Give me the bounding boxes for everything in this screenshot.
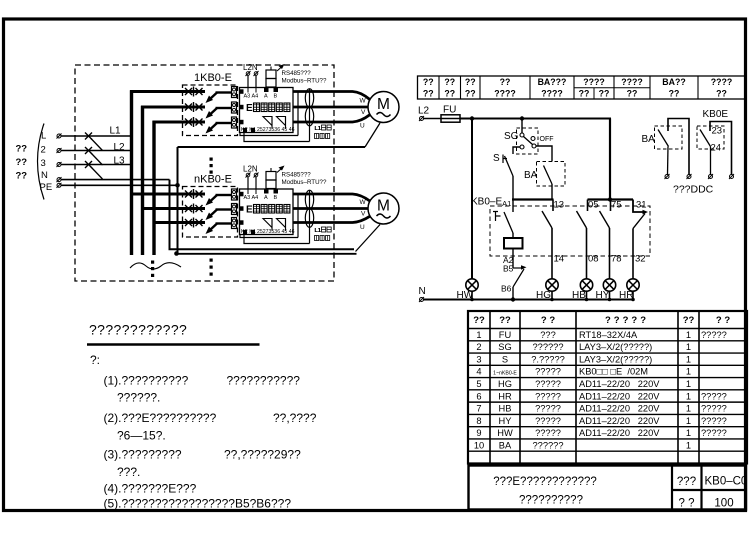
junction lamp/N x=609.5 xyxy=(608,298,612,302)
current transformer sampling wire 1KB0-E xyxy=(309,89,311,142)
svg-text:?????: ????? xyxy=(535,367,561,377)
RS485 connector 1KB0-E xyxy=(266,70,276,79)
svg-text:???E????????????: ???E???????????? xyxy=(493,476,597,488)
junction PE bottom xyxy=(174,251,179,256)
svg-text:AD11–22/20 220V: AD11–22/20 220V xyxy=(579,379,660,389)
terminal stub A4 1KB0-E xyxy=(255,88,257,93)
motor PE diagonal 1KB0-E xyxy=(365,123,380,147)
control feed wire xyxy=(424,118,442,120)
title block frame xyxy=(469,466,747,510)
svg-text:08: 08 xyxy=(588,254,599,265)
svg-text:1: 1 xyxy=(686,354,691,364)
svg-text:W: W xyxy=(360,199,367,206)
svg-text:HW: HW xyxy=(497,428,513,438)
svg-text:? ?: ? ? xyxy=(679,498,695,510)
sampling wire 2 1KB0-E xyxy=(297,92,299,136)
svg-text:(5).?????????????????B5?B6???: (5).?????????????????B5?B6??? xyxy=(104,497,292,511)
HW lamp rail drop xyxy=(471,119,473,280)
svg-text:KB0E: KB0E xyxy=(703,109,729,120)
terminal pads A,B nKB0-E xyxy=(264,190,269,194)
wire blade to terminal block phase 3 nKB0-E xyxy=(216,222,232,224)
svg-text:L1: L1 xyxy=(315,228,321,234)
controller input pad phase 2 nKB0-E xyxy=(239,206,244,211)
svg-text:U: U xyxy=(360,123,365,130)
svg-text:2: 2 xyxy=(41,145,46,156)
BOM row line y=426.7 xyxy=(468,426,747,428)
bottom pads 1KB0-E xyxy=(243,128,247,132)
svg-text:? ?: ? ? xyxy=(541,315,555,326)
BOM table frame xyxy=(468,311,747,463)
contactor/breaker dashed enclosure nKB0-E xyxy=(183,187,238,238)
terminal block phase 1 1KB0-E xyxy=(232,87,237,98)
svg-text:B6: B6 xyxy=(501,284,512,294)
terminal block phase 3 nKB0-E xyxy=(232,218,237,229)
KB0E bridge xyxy=(710,122,732,175)
svg-text:32: 32 xyxy=(635,254,646,265)
sampling wire 2 nKB0-E xyxy=(297,194,299,238)
wire-tap terminals L2 N nKB0-E xyxy=(246,173,250,177)
title block divider 2 xyxy=(700,466,702,510)
svg-text:??: ?? xyxy=(465,77,476,87)
bottom pads nKB0-E xyxy=(243,230,247,234)
feed drop to aux contacts xyxy=(609,119,611,200)
input brace xyxy=(38,124,45,200)
coil bottom wire xyxy=(512,249,514,269)
break squiggle on buses xyxy=(130,263,181,269)
svg-text:?????: ????? xyxy=(535,391,561,401)
svg-text:S: S xyxy=(502,354,508,364)
svg-text:HY: HY xyxy=(499,416,512,426)
L2 N feed wires 1KB0-E xyxy=(247,76,249,88)
svg-text:KB0□□ □E /02M: KB0□□ □E /02M xyxy=(579,367,648,377)
BA DDC wire down xyxy=(667,147,670,175)
RS485 connector nKB0-E xyxy=(266,172,276,181)
E-series controller box nKB0-E xyxy=(240,189,294,235)
bus L3 xyxy=(152,121,155,255)
controller input pad phase 1 1KB0-E xyxy=(239,89,244,94)
wire V output 1KB0-E xyxy=(293,106,368,109)
PE run to motor 1 xyxy=(178,146,366,148)
BOM row line y=402.1 xyxy=(468,401,747,403)
wire V output nKB0-E xyxy=(293,207,368,210)
svg-text:1: 1 xyxy=(686,379,691,389)
svg-text:4: 4 xyxy=(476,367,481,377)
terminal BA-b xyxy=(687,175,691,179)
wire blade to terminal block phase 1 nKB0-E xyxy=(216,194,232,196)
svg-text:???: ??? xyxy=(540,330,556,340)
svg-text:8: 8 xyxy=(476,416,481,426)
svg-text:??: ?? xyxy=(500,77,511,87)
svg-text:78: 78 xyxy=(611,254,622,265)
continuation dots bus break right xyxy=(210,259,213,262)
terminal stub A3 nKB0-E xyxy=(247,189,249,194)
motor M 1KB0-E xyxy=(368,92,399,123)
input wire PE xyxy=(61,184,178,186)
svg-text:L: L xyxy=(41,131,46,142)
svg-text:V: V xyxy=(361,211,366,218)
svg-text:??????: ?????? xyxy=(532,440,563,450)
lamp HB xyxy=(580,279,592,291)
svg-text:??????: ?????? xyxy=(532,342,563,352)
N line control xyxy=(424,299,635,301)
continuation dots bus break left xyxy=(151,261,154,264)
wire blade to terminal block phase 2 1KB0-E xyxy=(216,107,232,109)
svg-text:14: 14 xyxy=(554,254,565,265)
wire U output 1KB0-E xyxy=(293,115,370,122)
svg-text:BA: BA xyxy=(642,134,656,145)
wire SG left to S branch xyxy=(513,147,520,154)
svg-text:L2N: L2N xyxy=(243,63,258,72)
BOM row line y=353.0 xyxy=(468,352,747,354)
svg-text:???.: ???. xyxy=(117,465,140,479)
junction SG drop xyxy=(520,116,524,120)
sampling loop 1 1KB0-E xyxy=(240,133,298,136)
svg-text:5: 5 xyxy=(476,379,481,389)
svg-text:2: 2 xyxy=(476,342,481,352)
svg-text:24: 24 xyxy=(711,143,722,154)
KB0E dashed box xyxy=(697,126,724,149)
SG drop wire xyxy=(521,119,523,134)
BOM row line y=414.4 xyxy=(468,413,747,415)
svg-text:LAY3–X/2(?????): LAY3–X/2(?????) xyxy=(579,342,652,352)
svg-text:??: ?? xyxy=(716,89,727,99)
svg-text:?????: ????? xyxy=(535,379,561,389)
B5-B6 blade xyxy=(513,269,524,287)
input terminal L3 xyxy=(57,163,61,167)
svg-text:??: ?? xyxy=(579,89,590,99)
svg-text:1: 1 xyxy=(686,428,691,438)
SG blade xyxy=(524,137,533,145)
terminal block phase 2 1KB0-E xyxy=(232,102,237,113)
svg-text:1: 1 xyxy=(686,367,691,377)
svg-text:SG: SG xyxy=(504,131,519,142)
svg-text:1: 1 xyxy=(686,391,691,401)
svg-text:N: N xyxy=(41,170,48,181)
terminal pads A,B 1KB0-E xyxy=(264,88,269,92)
controller internal output symbols 1KB0-E xyxy=(263,117,272,126)
svg-text:(4).???????E???: (4).???????E??? xyxy=(104,482,197,496)
svg-text:OFF: OFF xyxy=(540,136,554,143)
control rail xyxy=(460,118,611,120)
svg-text:B: B xyxy=(274,195,278,201)
SG contacts xyxy=(520,133,524,137)
svg-text:KB0–C0: KB0–C0 xyxy=(705,476,748,488)
svg-text:FU: FU xyxy=(499,330,511,340)
terminal BA-a xyxy=(665,175,669,179)
terminal stub A3 1KB0-E xyxy=(247,88,249,93)
svg-text:????: ???? xyxy=(621,77,643,87)
bus N xyxy=(170,180,355,250)
svg-text:B5: B5 xyxy=(503,264,514,274)
svg-text:PE: PE xyxy=(40,182,53,193)
aux contact 05/08 xyxy=(587,200,589,212)
svg-text:RT18–32X/4A: RT18–32X/4A xyxy=(579,330,638,340)
svg-text:????: ???? xyxy=(541,89,563,99)
svg-text:1: 1 xyxy=(686,330,691,340)
svg-text:RS485???: RS485??? xyxy=(282,70,312,77)
isolator blade L3 xyxy=(91,167,103,179)
controller input pad phase 1 nKB0-E xyxy=(239,192,244,197)
title block horizontal divider xyxy=(672,489,746,491)
svg-text:HR: HR xyxy=(498,391,512,401)
signal table divider x=480 xyxy=(479,76,481,99)
svg-text:?????: ????? xyxy=(535,428,561,438)
wire-tap terminals L2 N 1KB0-E xyxy=(246,72,250,76)
lamp HR xyxy=(627,279,639,291)
svg-text:?????: ????? xyxy=(605,315,649,326)
svg-text:?????: ????? xyxy=(701,404,727,414)
coil branch wire top xyxy=(512,200,514,213)
svg-text:??: ?? xyxy=(16,144,28,155)
bus L2 xyxy=(141,106,144,255)
svg-text:?:: ?: xyxy=(90,353,100,367)
wire phase 3 from bus to breaker nKB0-E xyxy=(153,221,206,224)
svg-text:??: ?? xyxy=(16,157,28,168)
BA DDC bridge xyxy=(668,119,689,175)
input terminal L1 xyxy=(57,134,61,138)
contactor moving blade with arrowhead phase 2 1KB0-E xyxy=(210,108,217,115)
wire SG right to BA branch xyxy=(536,146,552,162)
input wire N xyxy=(61,179,170,181)
power section dashed enclosure xyxy=(75,65,334,281)
signal table divider x=460.5 xyxy=(460,76,462,99)
contactor moving blade with arrowhead phase 3 1KB0-E xyxy=(210,123,217,130)
svg-text:FU: FU xyxy=(443,105,456,116)
contact BA (control) dashed box xyxy=(537,162,566,187)
isolator cross L3 xyxy=(85,161,92,168)
svg-text:75: 75 xyxy=(611,200,622,211)
title block divider 1 xyxy=(671,466,673,510)
aux contact 31/32 xyxy=(633,200,646,213)
junction HW drop xyxy=(470,116,474,120)
svg-text:RS485???: RS485??? xyxy=(282,172,312,179)
isolator blade L1 xyxy=(91,139,103,151)
wire blade to terminal block phase 1 1KB0-E xyxy=(216,91,232,93)
wire BA to node xyxy=(551,184,553,200)
svg-text:S: S xyxy=(493,153,500,164)
svg-text:???: ??? xyxy=(677,476,696,488)
terminal stub A4 nKB0-E xyxy=(255,189,257,194)
svg-text:1: 1 xyxy=(686,440,691,450)
current transformer ellipses nKB0-E xyxy=(305,190,313,209)
breaker contact marks phase 2 nKB0-E xyxy=(185,204,203,214)
svg-text:100: 100 xyxy=(714,498,733,510)
BOM row line y=389.9 xyxy=(468,389,747,391)
KB0E wire down xyxy=(710,147,712,175)
svg-text:?6—15?.: ?6—15?. xyxy=(117,429,166,443)
svg-text:N: N xyxy=(419,286,426,297)
lamp HW xyxy=(466,279,478,291)
E-series controller box 1KB0-E xyxy=(240,88,294,133)
coil contact blade xyxy=(504,212,513,233)
KB0E blade xyxy=(700,130,711,147)
switch S blade xyxy=(505,156,514,176)
sampling loop 2 nKB0-E xyxy=(244,235,310,244)
svg-text:L1: L1 xyxy=(315,126,321,132)
svg-text:?????: ????? xyxy=(701,391,727,401)
svg-text:L1: L1 xyxy=(110,126,122,137)
svg-text:U: U xyxy=(360,224,365,231)
svg-text:LAY3–X/2(?????): LAY3–X/2(?????) xyxy=(579,354,652,364)
svg-text:L3: L3 xyxy=(114,156,126,167)
svg-text:AD11–22/20 220V: AD11–22/20 220V xyxy=(579,416,660,426)
RS485 arrow nKB0-E xyxy=(277,168,282,173)
svg-text:?????: ????? xyxy=(701,330,727,340)
BOM vertical x=678 xyxy=(677,311,679,463)
L2 N feed wires nKB0-E xyxy=(247,177,249,189)
svg-text:?????: ????? xyxy=(535,404,561,414)
input terminal PE xyxy=(57,183,61,187)
svg-text:A: A xyxy=(264,94,268,100)
breaker contact marks phase 3 nKB0-E xyxy=(185,218,203,228)
notes title underline xyxy=(87,343,260,346)
wire phase 1 from bus to breaker 1KB0-E xyxy=(130,90,205,93)
svg-text:?????: ????? xyxy=(535,416,561,426)
signal table divider x=530 xyxy=(529,76,531,99)
svg-text:L2N: L2N xyxy=(243,165,258,174)
current transformer ellipses 1KB0-E xyxy=(305,89,313,108)
wire blade to terminal block phase 3 1KB0-E xyxy=(216,122,232,124)
svg-text:????: ???? xyxy=(583,77,605,87)
signal table divider x=650 xyxy=(649,76,651,99)
svg-text:M: M xyxy=(377,96,390,113)
BA DDC blade xyxy=(658,130,669,147)
svg-text:??????????: ?????????? xyxy=(519,495,583,507)
bus L1 xyxy=(130,90,133,255)
node line 1 xyxy=(512,198,554,200)
svg-text:L2: L2 xyxy=(418,106,430,117)
svg-text:3: 3 xyxy=(41,158,46,169)
wire W output 1KB0-E xyxy=(293,92,370,100)
terminal block phase 1 nKB0-E xyxy=(232,189,237,200)
svg-text:BA: BA xyxy=(524,170,538,181)
BOM row line y=340.8 xyxy=(468,340,747,342)
BOM vertical x=699 xyxy=(698,311,700,463)
aux contact 13/14 xyxy=(552,200,554,212)
RS485 arrow 1KB0-E xyxy=(277,67,282,72)
contactor/breaker dashed enclosure 1KB0-E xyxy=(183,85,238,136)
junction lamp/N x=586.5 xyxy=(585,298,589,302)
svg-text:??: ?? xyxy=(465,89,476,99)
input wire L3 xyxy=(61,164,132,166)
svg-text:??: ?? xyxy=(627,89,638,99)
BOM vertical x=520 xyxy=(519,311,521,463)
breaker contact marks phase 2 1KB0-E xyxy=(185,102,203,112)
contactor moving blade with arrowhead phase 1 nKB0-E xyxy=(210,195,217,202)
svg-text:L2: L2 xyxy=(114,142,126,153)
svg-text:6: 6 xyxy=(476,391,481,401)
junction B6/N xyxy=(511,297,515,301)
svg-text:AD11–22/20 220V: AD11–22/20 220V xyxy=(579,428,660,438)
svg-text:A3 A4: A3 A4 xyxy=(244,94,259,100)
junction feed/line2 xyxy=(608,197,612,201)
svg-text:25273536 45 46: 25273536 45 46 xyxy=(257,127,295,133)
B5 jog with arrow xyxy=(513,267,524,269)
junction lamp/N x=552 xyxy=(550,298,554,302)
controller internal output symbols nKB0-E xyxy=(263,219,272,228)
svg-text:1: 1 xyxy=(476,330,481,340)
wire phase 2 from bus to breaker nKB0-E xyxy=(141,207,205,210)
svg-text:??: ?? xyxy=(444,89,455,99)
junction lamp/N x=633 xyxy=(631,298,635,302)
switch S actuator xyxy=(503,155,507,164)
PE run to motor n xyxy=(176,253,357,255)
input terminal N xyxy=(57,178,61,182)
lamp HG xyxy=(546,279,558,291)
bus PE vertical xyxy=(177,147,179,254)
BOM row line y=377.6 xyxy=(468,377,747,379)
contact BA blade xyxy=(544,166,553,185)
svg-text:AD11–22/20 220V: AD11–22/20 220V xyxy=(579,391,660,401)
contactor moving blade with arrowhead phase 3 nKB0-E xyxy=(210,224,217,231)
svg-text:??: ?? xyxy=(669,89,680,99)
svg-text:BA: BA xyxy=(499,440,512,450)
svg-text:??: ?? xyxy=(683,315,695,326)
input wire L2 xyxy=(61,150,132,152)
lamp HY xyxy=(603,279,615,291)
svg-text:HG: HG xyxy=(498,379,512,389)
continuation dots between branches xyxy=(210,158,213,161)
svg-text:??: ?? xyxy=(499,315,511,326)
svg-text:1KB0-E: 1KB0-E xyxy=(194,72,232,84)
svg-text:V: V xyxy=(361,109,366,116)
svg-text:9: 9 xyxy=(476,428,481,438)
isolator cross L2 xyxy=(85,147,92,154)
svg-text:???DDC: ???DDC xyxy=(673,184,714,196)
coil wire xyxy=(512,233,514,238)
svg-text:10: 10 xyxy=(474,440,484,450)
signal table top right xyxy=(418,76,746,99)
signal table divider x=574 xyxy=(573,76,575,99)
svg-text:????: ???? xyxy=(494,89,516,99)
svg-text:? ?: ? ? xyxy=(716,315,730,326)
wire B6 to N xyxy=(512,287,514,300)
coil KB0-EA1 xyxy=(504,238,523,249)
svg-text:(2).???E????????????,????: (2).???E????????????,???? xyxy=(104,411,317,425)
controller input pad phase 3 nKB0-E xyxy=(239,220,244,225)
svg-text:????: ???? xyxy=(711,77,733,87)
svg-text:BA???: BA??? xyxy=(538,77,567,87)
isolator blade L2 xyxy=(91,153,103,165)
svg-text:23: 23 xyxy=(712,126,723,137)
svg-text:25273536 45 46: 25273536 45 46 xyxy=(257,229,295,235)
svg-text:??????.: ??????. xyxy=(117,391,160,405)
svg-text:31: 31 xyxy=(636,200,647,211)
signal table divider x=614 xyxy=(613,76,615,99)
svg-text:7: 7 xyxy=(476,404,481,414)
sampling loop 1 nKB0-E xyxy=(240,235,298,238)
wire phase 2 from bus to breaker 1KB0-E xyxy=(141,106,205,109)
svg-text:3: 3 xyxy=(476,354,481,364)
wire blade to terminal block phase 2 nKB0-E xyxy=(216,208,232,210)
motor PE diagonal nKB0-E xyxy=(356,225,381,252)
svg-text:W: W xyxy=(360,98,367,105)
BOM row line y=365.3 xyxy=(468,364,747,366)
svg-text:05: 05 xyxy=(588,200,599,211)
svg-text:??: ?? xyxy=(599,89,610,99)
terminal KB0E-b xyxy=(730,175,734,179)
svg-text:1: 1 xyxy=(686,342,691,352)
selector switch SG dashed box xyxy=(517,128,539,154)
isolator cross L1 xyxy=(85,133,92,140)
BOM vertical x=576 xyxy=(575,311,577,463)
controller input pad phase 2 1KB0-E xyxy=(239,105,244,110)
controller input pad phase 3 1KB0-E xyxy=(239,120,244,125)
svg-text:1: 1 xyxy=(686,404,691,414)
svg-text:E: E xyxy=(246,103,253,114)
signal table mid divider cols 6-7 xyxy=(574,87,650,89)
terminal block phase 3 1KB0-E xyxy=(232,117,237,128)
